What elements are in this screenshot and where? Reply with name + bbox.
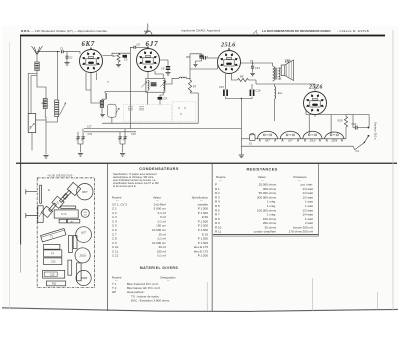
svg-text:6J7: 6J7 <box>146 40 159 48</box>
B+ bus to field coil <box>256 83 280 85</box>
chassis screw dot <box>48 190 50 192</box>
svg-text:25Z6: 25Z6 <box>80 276 88 280</box>
fold tick x312 <box>311 278 314 311</box>
svg-text:C13: C13 <box>199 54 204 58</box>
wire antenna coil to selector <box>28 71 37 114</box>
tube 25L6 <box>218 51 241 74</box>
chassis resistor bar pair 1 <box>69 236 73 253</box>
choke coil <box>147 72 149 79</box>
svg-text:R7: R7 <box>193 85 197 89</box>
chassis capacitor rect row3 <box>44 258 62 265</box>
svg-text:LA DOCUMENTATION DU REVENDEUR-: LA DOCUMENTATION DU REVENDEUR-RADIO <box>262 29 331 33</box>
svg-text:6K7: 6K7 <box>265 139 270 143</box>
variable capacitor CV1 <box>77 132 79 137</box>
svg-text:R11: R11 <box>52 283 57 286</box>
svg-text:Exc: Exc <box>278 91 283 95</box>
ground under lamp riser <box>239 155 244 158</box>
svg-text:CONDENSATEURS: CONDENSATEURS <box>139 167 179 171</box>
svg-text:25Z6: 25Z6 <box>330 139 337 143</box>
svg-text:—: — <box>167 279 170 282</box>
wire plate to output transformer <box>241 63 273 66</box>
ground small <box>193 64 197 67</box>
svg-text:C5: C5 <box>124 57 128 61</box>
svg-text:HP: HP <box>112 290 116 294</box>
pilot lamp <box>250 135 256 141</box>
resistor R7 <box>188 80 191 93</box>
mains switch Int <box>353 146 354 150</box>
svg-text:-VUE DESSOUS-: -VUE DESSOUS- <box>47 174 74 178</box>
wire R1 down to ground <box>44 109 47 155</box>
wire osc coil to ground <box>101 107 103 114</box>
chassis bar R1 <box>67 219 79 223</box>
handwritten tick right <box>253 30 258 36</box>
svg-text:C1: C1 <box>60 47 64 51</box>
filament rail left <box>241 138 249 140</box>
filament hump 25L6 <box>303 131 322 139</box>
6J7 grid cap <box>147 46 149 49</box>
svg-text:TS: TS <box>250 60 254 63</box>
capacitor C14 <box>252 63 254 66</box>
antenna coupling coil L <box>35 62 39 71</box>
chassis tilted square T2 <box>52 196 64 208</box>
svg-text:R10: R10 <box>338 119 343 123</box>
wire detector box right feed <box>155 71 163 79</box>
capacitor C7 <box>200 55 204 58</box>
wire filter caps bottom <box>226 97 253 99</box>
svg-text:C14: C14 <box>255 66 260 70</box>
IF block frame right <box>172 102 195 122</box>
svg-text:C8: C8 <box>161 66 165 70</box>
heater return wire <box>241 145 353 147</box>
wire antenna branch to R1 <box>37 73 46 94</box>
AVC bus y128.6 <box>84 128 241 130</box>
wave switch arrow <box>60 103 66 115</box>
svg-text:R5: R5 <box>186 55 190 59</box>
svg-text:C9: C9 <box>164 97 168 101</box>
handwritten mark <box>144 24 152 35</box>
svg-text:P 1.500: P 1.500 <box>198 254 209 258</box>
filter capacitor C15 <box>225 74 227 90</box>
capacitor C9 dark <box>147 92 149 104</box>
header rule <box>20 35 385 37</box>
column separator 2 <box>211 164 214 311</box>
page left border <box>19 35 22 245</box>
table RESISTANCES right rule <box>317 164 320 237</box>
svg-text:Imprimerie CHAIX, Argenteuil: Imprimerie CHAIX, Argenteuil <box>181 29 221 33</box>
chassis bottom rect <box>47 281 66 286</box>
resistor R2 <box>117 53 120 62</box>
resistor R10 <box>344 117 347 128</box>
wire C16 feed <box>251 84 253 90</box>
wire selector out <box>31 133 33 151</box>
filament hump 6J7 <box>280 131 300 139</box>
resistor R1 <box>43 99 47 109</box>
column separator 1 <box>106 164 109 311</box>
output transformer TS <box>273 66 275 81</box>
wire coil bottom <box>46 117 58 123</box>
schematic bottom rule <box>16 163 397 164</box>
filament hump 6K7 <box>258 131 278 139</box>
svg-text:170 ohms 300 mA: 170 ohms 300 mA <box>289 230 313 234</box>
table RESISTANCES bottom double rule <box>213 233 318 236</box>
IF block frame (dotted) <box>124 105 172 122</box>
chassis capacitor rect row1 <box>44 244 60 249</box>
wire osc to grid line <box>105 92 148 94</box>
svg-text:25Z6: 25Z6 <box>308 85 323 91</box>
svg-text:C16: C16 <box>256 89 261 93</box>
wire C1 to 6K7 grid <box>64 52 80 54</box>
fold tick x207 <box>206 282 209 311</box>
wire 6K7 cathode down <box>91 73 100 104</box>
wire heater drop 25Z6 <box>330 115 332 134</box>
svg-text:R1: R1 <box>42 101 46 105</box>
chassis capacitor rect row2 <box>44 250 62 257</box>
chassis tilted bar 1 <box>63 190 71 199</box>
svg-text:— 145, Boulevard Voltaire (11: — 145, Boulevard Voltaire (11ᵉ) — Reprod… <box>31 29 108 33</box>
svg-text:Int.: Int. <box>356 149 360 153</box>
filament baseline <box>258 138 347 140</box>
ground under C14 <box>250 73 255 76</box>
tube 6K7 <box>80 50 103 73</box>
svg-text:C2: C2 <box>69 56 73 60</box>
chassis transformer T1 <box>41 228 66 241</box>
osc top coil <box>105 93 107 99</box>
chassis aerial strip <box>40 185 42 203</box>
svg-text:0,1 mf: 0,1 mf <box>158 254 167 258</box>
25L6 grid cap <box>228 48 230 51</box>
svg-text:HP: HP <box>284 59 291 63</box>
mains right rail <box>368 115 370 127</box>
padder switch arrow <box>115 108 119 114</box>
chassis tuning condenser CV <box>54 210 78 218</box>
svg-text:C15: C15 <box>219 85 224 89</box>
fold tick x377 <box>376 292 379 311</box>
wire cathode rail to right <box>306 110 369 115</box>
svg-text:R 11: R 11 <box>215 230 221 234</box>
bus y131.8 <box>84 131 136 133</box>
wire osc box down <box>111 117 113 123</box>
ground CV1 <box>78 154 83 157</box>
speaker HP <box>281 65 285 76</box>
capacitor C13 <box>204 56 206 59</box>
antenna <box>32 46 43 55</box>
svg-text:cordon chauffant: cordon chauffant <box>254 230 276 234</box>
svg-text:C10: C10 <box>50 274 55 277</box>
svg-text:C 12: C 12 <box>112 254 119 258</box>
capacitor C5 (mica) <box>123 55 128 58</box>
capacitor C20 <box>353 115 355 128</box>
svg-text:et de service pour E.: et de service pour E. <box>113 184 137 188</box>
svg-text:C20: C20 <box>352 123 357 126</box>
chassis left connector block <box>38 206 43 223</box>
wire IF block bottom rail <box>102 93 198 123</box>
field coil EXC <box>274 84 276 87</box>
fold line left <box>8 42 11 310</box>
svg-text:C.V.: C.V. <box>61 212 67 216</box>
wire antenna down <box>36 55 38 63</box>
wire heater drop 25L6 <box>308 115 310 134</box>
resistor R8 <box>238 78 249 81</box>
chassis electrolytic block <box>43 270 65 278</box>
detector transformer box <box>146 78 165 92</box>
svg-text:EXC : Excitation 2.800 ohms.: EXC : Excitation 2.800 ohms. <box>131 298 170 302</box>
chassis PU jack <box>26 213 38 218</box>
phono selector box <box>28 114 36 133</box>
capacitor C2 <box>66 52 68 56</box>
svg-text:—: — <box>261 179 264 182</box>
svg-text:C13: C13 <box>51 260 56 263</box>
page bottom rule <box>2 308 398 312</box>
R-C net above choke <box>189 54 191 63</box>
variable capacitor CV2 <box>119 132 121 137</box>
chassis outline box <box>37 178 94 288</box>
svg-text:RESISTANCES: RESISTANCES <box>246 168 277 172</box>
wire down to tuning coil <box>57 52 59 100</box>
svg-text:CV2: CV2 <box>131 133 136 136</box>
svg-text:25L6: 25L6 <box>309 139 316 143</box>
wire choke to riser <box>187 65 218 78</box>
tuning coil T1 <box>55 100 59 117</box>
wire 6K7 extra pin drop <box>96 73 98 81</box>
svg-text:6J7: 6J7 <box>81 231 86 235</box>
chassis bar C2 <box>59 219 67 223</box>
capacitor C1 <box>61 50 63 53</box>
chassis tube 6J7 <box>76 227 92 243</box>
capacitor C6 <box>136 46 148 48</box>
wire grid line top <box>37 51 60 53</box>
6K7 grid cap <box>90 47 92 50</box>
filter capacitor C16 <box>250 90 253 97</box>
chassis tilted bar 3 <box>49 203 57 212</box>
IF box faint coils <box>128 107 144 110</box>
fold line right <box>392 30 395 311</box>
filament hump 25Z6 <box>325 132 345 139</box>
ground under R2 <box>116 64 121 67</box>
tube 6J7 <box>137 49 160 72</box>
ground left <box>43 156 48 159</box>
svg-text:C6: C6 <box>137 43 141 47</box>
wire riser to AVC bus <box>129 53 131 128</box>
osc padding coil (striped) <box>100 100 104 107</box>
capacitor C8 <box>160 60 169 66</box>
chassis tube 25Z6 <box>76 270 91 285</box>
svg-text:—: — <box>219 179 222 182</box>
svg-text:CV1: CV1 <box>88 133 93 136</box>
svg-text:Secteur 110 v.: Secteur 110 v. <box>374 122 378 140</box>
wire 25Z6 cathode down <box>314 115 316 118</box>
wire selector to ground branch <box>36 119 46 121</box>
chassis antenna jack <box>26 189 37 194</box>
svg-text:25L6: 25L6 <box>220 42 236 49</box>
svg-text:25L6: 25L6 <box>78 254 86 258</box>
svg-text:6K7: 6K7 <box>82 190 88 194</box>
wire 6K7 plate out <box>103 53 131 55</box>
chassis bar above CV <box>61 206 76 208</box>
chassis coil CH-CV <box>81 209 89 217</box>
chassis tilted square bottom <box>41 206 52 217</box>
chassis tilted bar 2 <box>59 193 67 202</box>
svg-text:C17: C17 <box>87 125 92 128</box>
svg-text:6J7: 6J7 <box>288 139 293 143</box>
svg-text:R2: R2 <box>112 54 116 58</box>
junction node <box>57 51 58 52</box>
svg-text:R.B.S.: R.B.S. <box>21 29 30 33</box>
chassis tilted square top <box>67 182 80 195</box>
svg-text:6K7: 6K7 <box>82 41 95 48</box>
ground CV2 <box>120 154 125 157</box>
ground under C8 <box>165 73 170 76</box>
svg-text:- Châssis M. W25VB: - Châssis M. W25VB <box>337 29 369 33</box>
svg-text:MATERIEL DIVERS: MATERIEL DIVERS <box>140 266 179 270</box>
wire 6K7 pin drop 2 <box>86 73 91 91</box>
mains terminals <box>368 127 370 129</box>
trimmer arrows <box>141 82 147 88</box>
wire twin lead <box>31 76 37 114</box>
chassis tube 6K7 <box>77 184 93 200</box>
chassis resistor bar pair 2 <box>68 260 72 275</box>
svg-text:R8: R8 <box>240 75 244 79</box>
wire 25Z6 plate to B+ <box>280 84 315 92</box>
svg-text:—: — <box>298 179 301 182</box>
chassis tube 25L6 <box>75 248 90 263</box>
osc switch loop <box>108 104 117 117</box>
tube 25Z6 <box>304 92 327 115</box>
